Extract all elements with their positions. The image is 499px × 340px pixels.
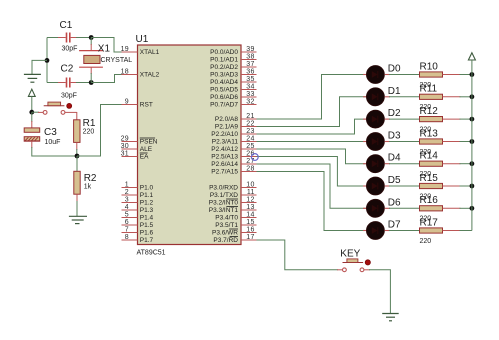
resistor R1 bbox=[74, 118, 96, 142]
svg-text:30pF: 30pF bbox=[62, 46, 78, 53]
svg-text:34: 34 bbox=[246, 83, 254, 90]
svg-text:EA: EA bbox=[140, 154, 149, 161]
capacitor C3 bbox=[24, 127, 60, 146]
wire C1 right to node bbox=[71, 37, 92, 39]
U1 pin 9 RST bbox=[122, 98, 153, 108]
svg-text:R1: R1 bbox=[83, 118, 96, 129]
svg-text:7: 7 bbox=[125, 226, 129, 233]
svg-text:39: 39 bbox=[246, 46, 254, 53]
svg-text:XTAL1: XTAL1 bbox=[140, 49, 160, 56]
svg-text:29: 29 bbox=[121, 135, 129, 142]
U1 pin 7 P1.6 bbox=[122, 226, 154, 236]
svg-text:D2: D2 bbox=[388, 108, 401, 119]
wire R15 to VCC rail bbox=[443, 185, 472, 187]
wire R16 to VCC rail bbox=[443, 207, 472, 209]
svg-text:P0.6/AD6: P0.6/AD6 bbox=[210, 94, 238, 101]
svg-text:C3: C3 bbox=[44, 127, 57, 138]
wire R2 to ground bbox=[76, 194, 78, 216]
svg-text:1: 1 bbox=[125, 181, 129, 188]
resistor R14 220 bbox=[420, 151, 443, 179]
svg-text:U1: U1 bbox=[136, 34, 149, 45]
svg-text:P1.5: P1.5 bbox=[140, 222, 154, 229]
svg-text:P2.5/A13: P2.5/A13 bbox=[211, 154, 238, 161]
wire P2.7 to D7 bbox=[257, 172, 367, 231]
U1 pin 30 ALE bbox=[121, 143, 153, 153]
svg-text:220: 220 bbox=[420, 238, 432, 245]
ground (R2) bbox=[69, 216, 87, 223]
svg-text:9: 9 bbox=[125, 98, 129, 105]
svg-text:P3.3/INT1: P3.3/INT1 bbox=[209, 207, 239, 214]
node rail junction D0 bbox=[470, 72, 475, 77]
svg-text:P3.2/INT0: P3.2/INT0 bbox=[209, 200, 239, 207]
U1 pin 3 P1.2 bbox=[122, 196, 154, 206]
wire R17 to VCC rail bbox=[443, 230, 472, 232]
wire P3.7 to KEY bbox=[257, 240, 343, 270]
svg-text:21: 21 bbox=[246, 113, 254, 120]
svg-text:PSEN: PSEN bbox=[140, 139, 158, 146]
U1 pin 26 P2.5/A13 bbox=[211, 150, 256, 160]
U1 pin 34 P0.5/AD5 bbox=[210, 83, 256, 93]
wire VCC rail bbox=[471, 60, 473, 231]
U1 pin 21 P2.0/A8 bbox=[215, 113, 257, 123]
svg-text:R16: R16 bbox=[420, 195, 439, 206]
svg-text:P3.7/RD: P3.7/RD bbox=[213, 237, 238, 244]
wire R14 to VCC rail bbox=[443, 163, 472, 165]
wire VCC to button bbox=[32, 111, 43, 113]
svg-text:X1: X1 bbox=[98, 44, 111, 55]
svg-text:P0.3/AD3: P0.3/AD3 bbox=[210, 72, 238, 79]
U1 pin 28 P2.7/A15 bbox=[211, 165, 256, 175]
svg-text:P0.2/AD2: P0.2/AD2 bbox=[210, 64, 238, 71]
svg-text:P1.0: P1.0 bbox=[140, 185, 154, 192]
capacitor C3 wire top bbox=[31, 112, 33, 128]
svg-text:P1.4: P1.4 bbox=[140, 215, 154, 222]
U1 pin 12 P3.2/INT0 bbox=[209, 196, 257, 206]
svg-text:P3.5/T1: P3.5/T1 bbox=[215, 222, 238, 229]
U1 pin 36 P0.3/AD3 bbox=[210, 68, 256, 78]
node rail junction D5 bbox=[470, 184, 475, 189]
svg-text:4: 4 bbox=[125, 204, 129, 211]
wire button to R1 bbox=[65, 112, 77, 120]
wire R10 to VCC rail bbox=[443, 74, 472, 76]
svg-text:R10: R10 bbox=[420, 61, 439, 72]
svg-text:19: 19 bbox=[121, 46, 129, 53]
wire crystal top bbox=[90, 38, 92, 51]
node XTAL1 junction bbox=[89, 35, 94, 40]
svg-text:D5: D5 bbox=[388, 175, 401, 186]
svg-text:37: 37 bbox=[246, 61, 254, 68]
U1 pin 11 P3.1/TXD bbox=[210, 189, 257, 199]
wire P2.1 to D1 bbox=[257, 97, 367, 127]
wire R13 to VCC rail bbox=[443, 141, 472, 143]
resistor R12 220 bbox=[420, 106, 443, 133]
wire XTAL2 net to chip bbox=[91, 75, 121, 83]
node rail junction D6 bbox=[470, 206, 475, 211]
svg-text:220: 220 bbox=[83, 129, 95, 136]
svg-text:R12: R12 bbox=[420, 106, 439, 117]
node highlight circle (pin 26) bbox=[251, 154, 258, 161]
resistor R17 220 bbox=[420, 217, 443, 245]
U1 pin 25 P2.4/A12 bbox=[211, 143, 256, 153]
svg-text:P0.7/AD7: P0.7/AD7 bbox=[210, 102, 238, 109]
svg-text:C1: C1 bbox=[60, 20, 73, 31]
svg-text:XTAL2: XTAL2 bbox=[140, 72, 160, 79]
U1 pin 15 P3.5/T1 bbox=[215, 219, 256, 229]
wire P2.4 to D4 bbox=[257, 149, 367, 164]
crystal X1 bbox=[79, 44, 132, 68]
svg-text:R17: R17 bbox=[420, 217, 439, 228]
svg-text:P0.4/AD4: P0.4/AD4 bbox=[210, 79, 238, 86]
wire P2.2 to D2 bbox=[257, 119, 367, 134]
ground (crystal) bbox=[24, 74, 41, 82]
svg-text:33: 33 bbox=[246, 91, 254, 98]
svg-text:P2.4/A12: P2.4/A12 bbox=[211, 146, 238, 153]
wire KEY to ground bbox=[364, 270, 391, 314]
wire R1 bottom to node bbox=[76, 142, 78, 156]
U1 pin 32 P0.7/AD7 bbox=[210, 98, 256, 108]
wire C1 left to rail bbox=[47, 37, 66, 39]
svg-text:25: 25 bbox=[246, 143, 254, 150]
svg-text:D7: D7 bbox=[388, 220, 401, 231]
svg-text:24: 24 bbox=[246, 135, 254, 142]
wire P2.5 to D5 bbox=[257, 157, 367, 187]
svg-text:R14: R14 bbox=[420, 151, 439, 162]
wire RST net to chip bbox=[77, 105, 122, 157]
U1 pin 13 P3.3/INT1 bbox=[209, 204, 257, 214]
resistor R11 220 bbox=[420, 84, 443, 112]
LED D6 bbox=[363, 197, 401, 217]
svg-text:D0: D0 bbox=[388, 64, 401, 75]
wire D2 to R12 bbox=[389, 118, 420, 120]
capacitor C2 bbox=[61, 64, 77, 100]
svg-text:38: 38 bbox=[246, 53, 254, 60]
svg-text:P2.1/A9: P2.1/A9 bbox=[215, 124, 239, 131]
U1 pin 19 XTAL1 bbox=[121, 46, 160, 56]
svg-text:32: 32 bbox=[246, 98, 254, 105]
node XTAL2 junction bbox=[89, 80, 94, 85]
U1 pin 33 P0.6/AD6 bbox=[210, 91, 256, 101]
power VCC arrow (rail) bbox=[468, 53, 475, 60]
resistor R13 220 bbox=[420, 128, 443, 156]
LED D1 bbox=[363, 86, 401, 106]
wire crystal bottom bbox=[90, 67, 92, 82]
U1 pin 14 P3.4/T0 bbox=[215, 211, 256, 221]
wire D0 to R10 bbox=[389, 74, 420, 76]
svg-text:22: 22 bbox=[246, 120, 254, 127]
U1 pin 10 P3.0/RXD bbox=[209, 181, 256, 191]
LED D2 bbox=[363, 108, 401, 128]
wire D6 to R16 bbox=[389, 207, 420, 209]
U1 pin 17 P3.7/RD bbox=[213, 234, 256, 244]
wire D7 to R17 bbox=[389, 230, 420, 232]
svg-text:P2.6/A14: P2.6/A14 bbox=[211, 161, 238, 168]
node rail junction D3 bbox=[470, 139, 475, 144]
resistor R15 220 bbox=[420, 173, 443, 201]
U1 pin 4 P1.3 bbox=[122, 204, 154, 214]
svg-text:6: 6 bbox=[125, 219, 129, 226]
svg-text:P3.0/RXD: P3.0/RXD bbox=[209, 185, 238, 192]
svg-text:C2: C2 bbox=[61, 64, 74, 75]
svg-text:P1.6: P1.6 bbox=[140, 230, 154, 237]
svg-text:36: 36 bbox=[246, 68, 254, 75]
svg-text:ALE: ALE bbox=[140, 146, 153, 153]
power VCC arrow (reset) bbox=[28, 89, 35, 112]
U1 pin 27 P2.6/A14 bbox=[211, 158, 256, 168]
node rail junction D1 bbox=[470, 94, 475, 99]
U1 pin 23 P2.2/A10 bbox=[211, 128, 256, 138]
U1 pin 37 P0.2/AD2 bbox=[210, 61, 256, 71]
svg-text:P2.0/A8: P2.0/A8 bbox=[215, 116, 239, 123]
svg-text:R11: R11 bbox=[420, 84, 438, 95]
svg-text:30pF: 30pF bbox=[61, 93, 77, 100]
U1 pin 18 XTAL2 bbox=[121, 68, 160, 78]
U1 pin 2 P1.1 bbox=[122, 189, 154, 199]
wire XTAL1 net to chip bbox=[91, 38, 121, 53]
U1 pin 22 P2.1/A9 bbox=[215, 120, 257, 130]
LED D4 bbox=[363, 153, 401, 173]
resistor R2 bbox=[74, 156, 97, 194]
svg-text:P3.4/T0: P3.4/T0 bbox=[215, 215, 238, 222]
svg-text:D4: D4 bbox=[388, 153, 401, 164]
svg-text:P2.2/A10: P2.2/A10 bbox=[211, 131, 238, 138]
wire D4 to R14 bbox=[389, 163, 420, 165]
svg-text:2: 2 bbox=[125, 189, 129, 196]
svg-text:P1.2: P1.2 bbox=[140, 200, 154, 207]
wire to ground bbox=[32, 60, 47, 74]
svg-text:35: 35 bbox=[246, 76, 254, 83]
ground (KEY) bbox=[382, 314, 399, 321]
LED D7 bbox=[363, 220, 401, 240]
wire D1 to R11 bbox=[389, 96, 420, 98]
U1 pin 5 P1.4 bbox=[122, 211, 154, 221]
svg-text:AT89C51: AT89C51 bbox=[137, 250, 166, 257]
svg-text:RST: RST bbox=[140, 102, 153, 109]
svg-text:10uF: 10uF bbox=[45, 139, 61, 146]
capacitor C1 bbox=[60, 20, 78, 53]
svg-text:D3: D3 bbox=[388, 131, 401, 142]
U1 pin 35 P0.4/AD4 bbox=[210, 76, 256, 86]
U1 pin 16 P3.6/WR bbox=[212, 226, 257, 236]
LED D5 bbox=[363, 175, 401, 195]
svg-text:15: 15 bbox=[246, 219, 254, 226]
wire R12 to VCC rail bbox=[443, 118, 472, 120]
svg-text:D1: D1 bbox=[388, 86, 401, 97]
svg-text:3: 3 bbox=[125, 196, 129, 203]
U1 pin 31 EA bbox=[121, 150, 150, 160]
resistor R16 220 bbox=[420, 195, 443, 223]
wire left rail C1-C2 bbox=[46, 38, 48, 83]
svg-text:17: 17 bbox=[246, 234, 254, 241]
svg-text:28: 28 bbox=[246, 165, 254, 172]
node rail junction D4 bbox=[470, 161, 475, 166]
svg-text:R2: R2 bbox=[84, 173, 97, 184]
U1 pin 6 P1.5 bbox=[122, 219, 154, 229]
svg-text:P1.3: P1.3 bbox=[140, 207, 154, 214]
U1 pin 38 P0.1/AD1 bbox=[210, 53, 256, 63]
svg-text:1k: 1k bbox=[84, 184, 92, 191]
U1 pin 8 P1.7 bbox=[122, 234, 154, 244]
U1 pin 24 P2.3/A11 bbox=[212, 135, 257, 145]
svg-text:23: 23 bbox=[246, 128, 254, 135]
wire C2 left bbox=[47, 82, 66, 84]
svg-text:P2.3/A11: P2.3/A11 bbox=[212, 139, 239, 146]
push-button KEY bbox=[340, 249, 370, 272]
LED D3 bbox=[363, 131, 401, 151]
svg-text:27: 27 bbox=[246, 158, 254, 165]
svg-text:KEY: KEY bbox=[340, 249, 360, 260]
LED D0 bbox=[363, 64, 401, 84]
wire P2.3 to D3 bbox=[257, 141, 367, 143]
svg-text:10: 10 bbox=[246, 181, 254, 188]
svg-text:P0.1/AD1: P0.1/AD1 bbox=[210, 57, 238, 64]
wire D5 to R15 bbox=[389, 185, 420, 187]
svg-text:12: 12 bbox=[246, 196, 254, 203]
capacitor C3 wire bottom bbox=[32, 141, 77, 156]
svg-text:P3.1/TXD: P3.1/TXD bbox=[210, 192, 238, 199]
wire P2.0 to D0 bbox=[257, 75, 367, 120]
push-button reset bbox=[43, 102, 72, 114]
svg-text:11: 11 bbox=[247, 189, 255, 196]
svg-text:P0.0/AD0: P0.0/AD0 bbox=[210, 49, 238, 56]
wire R11 to VCC rail bbox=[443, 96, 472, 98]
svg-text:P1.1: P1.1 bbox=[140, 192, 154, 199]
wire C2 right to node bbox=[71, 82, 92, 84]
svg-text:31: 31 bbox=[121, 150, 129, 157]
node VCC junction bbox=[29, 110, 34, 115]
node rail junction D2 bbox=[470, 117, 475, 122]
svg-text:8: 8 bbox=[125, 234, 129, 241]
U1 pin 1 P1.0 bbox=[122, 181, 154, 191]
wire P2.6 to D6 bbox=[257, 164, 367, 208]
svg-text:R13: R13 bbox=[420, 128, 439, 139]
svg-text:P2.7/A15: P2.7/A15 bbox=[211, 169, 238, 176]
node ground branch junction bbox=[45, 58, 50, 63]
IC U1 AT89C51 body bbox=[136, 34, 242, 257]
svg-text:P0.5/AD5: P0.5/AD5 bbox=[210, 87, 238, 94]
node RST junction bbox=[75, 154, 80, 159]
wire D3 to R13 bbox=[389, 141, 420, 143]
svg-text:16: 16 bbox=[246, 226, 254, 233]
U1 pin 29 PSEN bbox=[121, 135, 158, 145]
svg-text:5: 5 bbox=[125, 211, 129, 218]
svg-text:30: 30 bbox=[121, 143, 129, 150]
resistor R10 220 bbox=[420, 61, 443, 89]
svg-text:P1.7: P1.7 bbox=[140, 237, 154, 244]
svg-text:R15: R15 bbox=[420, 173, 439, 184]
svg-text:14: 14 bbox=[246, 211, 254, 218]
svg-text:18: 18 bbox=[121, 68, 129, 75]
svg-text:P3.6/WR: P3.6/WR bbox=[212, 230, 238, 237]
svg-text:13: 13 bbox=[246, 204, 254, 211]
svg-text:D6: D6 bbox=[388, 197, 401, 208]
svg-text:CRYSTAL: CRYSTAL bbox=[101, 57, 133, 64]
U1 pin 39 P0.0/AD0 bbox=[210, 46, 256, 56]
